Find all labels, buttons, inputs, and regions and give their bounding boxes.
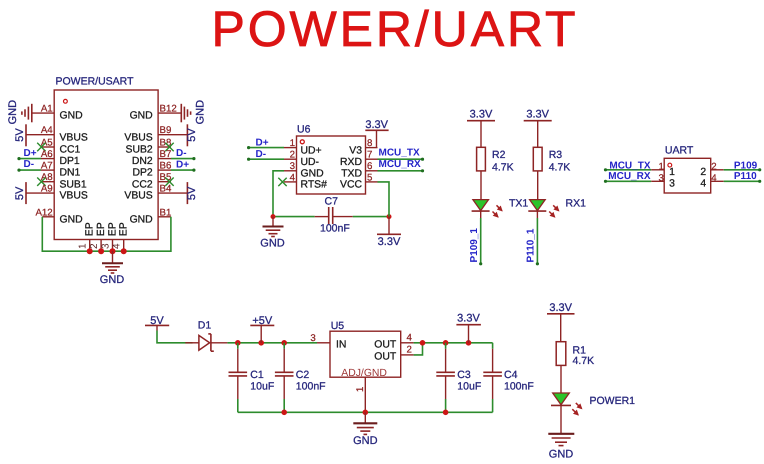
pin B9 VBUS xyxy=(124,125,187,143)
wire net D- right xyxy=(171,148,195,160)
svg-text:3.3V: 3.3V xyxy=(549,302,572,314)
svg-text:3: 3 xyxy=(669,179,675,190)
svg-text:C7: C7 xyxy=(325,195,339,207)
svg-text:EP: EP xyxy=(107,222,118,236)
capacitor C2 xyxy=(275,343,326,413)
svg-text:IN: IN xyxy=(336,339,346,350)
wire net MCU_TX at U6 xyxy=(378,148,425,161)
wire U6 VCC to junction xyxy=(378,182,390,217)
U6 pin 8 V3 xyxy=(349,138,377,156)
svg-text:V3: V3 xyxy=(349,145,362,156)
svg-text:5V: 5V xyxy=(14,128,26,142)
svg-text:D-: D- xyxy=(176,148,187,159)
svg-text:5: 5 xyxy=(367,172,372,183)
svg-text:100nF: 100nF xyxy=(504,380,534,392)
capacitor C4 xyxy=(483,343,533,413)
svg-text:1: 1 xyxy=(78,243,89,249)
svg-text:B1: B1 xyxy=(160,207,172,218)
pin EP3 xyxy=(100,222,118,251)
svg-text:3.3V: 3.3V xyxy=(457,312,480,324)
svg-text:P110_1: P110_1 xyxy=(526,228,537,262)
resistor R1 xyxy=(556,342,594,368)
svg-text:3: 3 xyxy=(310,333,315,344)
svg-text:MCU_RX: MCU_RX xyxy=(608,171,651,182)
svg-text:MCU_RX: MCU_RX xyxy=(379,159,422,170)
svg-text:EP: EP xyxy=(119,222,130,236)
U6 pin 3 GND xyxy=(284,161,324,179)
connector UART box xyxy=(664,145,711,193)
capacitor C3 xyxy=(436,343,481,413)
U6 pin 7 RXD xyxy=(340,150,377,168)
svg-text:VBUS: VBUS xyxy=(124,132,152,143)
svg-text:D1: D1 xyxy=(198,320,212,332)
svg-text:1: 1 xyxy=(659,161,664,172)
wire GND net under connector xyxy=(42,217,171,251)
ground symbol under U5 xyxy=(353,412,378,447)
pin B7 DN2 xyxy=(132,149,171,167)
svg-text:VBUS: VBUS xyxy=(124,191,152,202)
svg-text:5V: 5V xyxy=(14,186,26,200)
svg-text:DN2: DN2 xyxy=(132,156,153,167)
ground symbol under U6 xyxy=(260,217,285,250)
UART pin 1 xyxy=(651,161,675,178)
svg-text:TXD: TXD xyxy=(341,169,362,180)
svg-text:6: 6 xyxy=(367,161,372,172)
svg-text:D+: D+ xyxy=(176,160,189,171)
wire net D- left xyxy=(17,159,41,172)
svg-text:U6: U6 xyxy=(297,124,311,136)
svg-text:VBUS: VBUS xyxy=(60,132,88,143)
U6 pin 1 UD+ xyxy=(284,138,322,156)
resistor R2 xyxy=(477,147,514,173)
diode D1 xyxy=(185,320,227,352)
svg-text:POWER1: POWER1 xyxy=(590,395,636,407)
svg-text:100nF: 100nF xyxy=(296,380,326,392)
junction 3.3V stub xyxy=(466,340,472,346)
svg-text:VCC: VCC xyxy=(340,180,362,191)
pin A5 CC1 xyxy=(41,138,81,156)
no-connect X on B5 xyxy=(165,178,173,186)
junction C3 bottom xyxy=(443,410,449,416)
pin A12 GND xyxy=(35,207,82,225)
svg-text:3.3V: 3.3V xyxy=(365,119,388,131)
capacitor C1 xyxy=(229,343,275,413)
svg-text:1: 1 xyxy=(290,138,295,149)
svg-text:4.7K: 4.7K xyxy=(573,355,595,367)
svg-text:CC2: CC2 xyxy=(132,179,153,190)
wire R2 to TX1 xyxy=(480,171,482,200)
svg-text:10uF: 10uF xyxy=(457,380,481,392)
wire net MCU_RX at UART xyxy=(604,171,651,183)
svg-text:C2: C2 xyxy=(296,369,310,381)
svg-text:GND: GND xyxy=(194,100,206,125)
wire net P110_1 xyxy=(526,211,539,265)
svg-text:3.3V: 3.3V xyxy=(470,108,493,120)
IC U5 box xyxy=(330,320,401,377)
svg-text:4: 4 xyxy=(112,243,123,249)
pin EP2 xyxy=(89,222,107,251)
svg-text:RX1: RX1 xyxy=(566,198,587,210)
svg-text:R2: R2 xyxy=(492,149,506,161)
supply 3.3V above C3 xyxy=(456,312,481,343)
pin A6 DP1 xyxy=(41,149,80,167)
wire POWER1 to GND xyxy=(560,405,562,433)
no-connect X on A8 xyxy=(37,178,45,186)
svg-text:4: 4 xyxy=(290,172,296,183)
svg-text:4.7K: 4.7K xyxy=(549,161,571,173)
svg-text:A9: A9 xyxy=(41,184,53,195)
svg-text:GND: GND xyxy=(100,274,125,286)
junction C1 top xyxy=(235,340,241,346)
pin EP1 xyxy=(78,222,96,251)
no-connect X on B8 xyxy=(165,143,173,151)
pin A1 GND xyxy=(32,104,83,122)
pin B12 GND xyxy=(130,104,182,122)
svg-text:3: 3 xyxy=(659,173,664,184)
connector POWER/USART box xyxy=(54,76,158,240)
wire net MCU_TX at UART xyxy=(604,160,651,171)
wire 5V to D1 xyxy=(157,331,193,343)
svg-text:GND: GND xyxy=(353,435,378,447)
U5 pin 1 ADJ xyxy=(355,377,366,412)
svg-text:B4: B4 xyxy=(160,184,172,195)
junction EP2 xyxy=(98,248,104,254)
svg-text:P109_1: P109_1 xyxy=(469,228,480,263)
svg-text:R3: R3 xyxy=(549,149,563,161)
junction U5 pin1 xyxy=(363,410,369,416)
pin EP4 xyxy=(112,222,130,251)
svg-text:A6: A6 xyxy=(41,149,53,160)
wire C7 right to 3.3V xyxy=(333,216,353,218)
svg-text:MCU_TX: MCU_TX xyxy=(609,160,650,171)
supply 3.3V below C7 xyxy=(377,217,401,248)
svg-text:MCU_TX: MCU_TX xyxy=(379,148,420,159)
supply 5V at B9 xyxy=(186,124,198,146)
junction C3 top xyxy=(443,340,449,346)
no-connect X on U6 pin 4 xyxy=(278,178,286,186)
wire net D- to U6 xyxy=(247,149,284,161)
svg-text:5V: 5V xyxy=(186,128,198,142)
IC U6 box xyxy=(297,124,366,195)
svg-text:A4: A4 xyxy=(41,125,53,136)
svg-text:SUB2: SUB2 xyxy=(126,145,153,156)
supply 3.3V above R1 xyxy=(547,302,575,342)
svg-text:POWER/USART: POWER/USART xyxy=(56,76,135,88)
wire net P109_1 xyxy=(469,211,482,265)
svg-text:DN1: DN1 xyxy=(60,168,81,179)
svg-text:TX1: TX1 xyxy=(509,198,528,210)
junction at C7 left xyxy=(271,214,276,219)
svg-text:GND: GND xyxy=(260,238,285,250)
ground symbol left A1 xyxy=(7,100,32,125)
wire net MCU_RX at U6 xyxy=(378,159,425,172)
svg-text:B12: B12 xyxy=(160,104,177,115)
svg-text:D+: D+ xyxy=(24,148,37,159)
U6 pin 5 VCC xyxy=(340,172,377,190)
UART pin 2 xyxy=(700,161,723,178)
junction C2 top xyxy=(281,340,287,346)
svg-text:OUT: OUT xyxy=(374,351,397,362)
no-connect X on A5 xyxy=(37,143,45,151)
svg-text:ADJ/GND: ADJ/GND xyxy=(341,368,387,379)
svg-text:7: 7 xyxy=(367,150,372,161)
svg-text:GND: GND xyxy=(130,111,153,122)
wire OUT net top xyxy=(414,342,493,344)
pin A9 VBUS xyxy=(26,184,88,202)
svg-text:2: 2 xyxy=(290,150,295,161)
supply 3.3V above R3 xyxy=(524,108,552,147)
UART pin 4 xyxy=(700,173,723,190)
junction EP1 xyxy=(87,248,93,254)
wire net D+ to U6 xyxy=(247,138,284,150)
svg-text:DP1: DP1 xyxy=(60,156,80,167)
pin A8 SUB1 xyxy=(41,172,87,190)
svg-text:UD-: UD- xyxy=(301,157,319,168)
wire net P110 xyxy=(724,171,762,183)
svg-text:RXD: RXD xyxy=(340,157,362,168)
wire U6 GND net xyxy=(273,171,315,217)
UART pin 3 xyxy=(651,173,675,190)
svg-text:4: 4 xyxy=(711,173,717,184)
wire net D+ left xyxy=(17,148,41,160)
svg-text:8: 8 xyxy=(367,138,372,149)
U6 pin 6 TXD xyxy=(341,161,377,179)
junction at C7 right xyxy=(387,214,392,219)
svg-text:B6: B6 xyxy=(160,161,172,172)
svg-text:GND: GND xyxy=(301,169,324,180)
junction +5V stub xyxy=(258,340,264,346)
junction C2 bottom xyxy=(281,410,287,416)
svg-text:D+: D+ xyxy=(256,138,269,149)
svg-text:B9: B9 xyxy=(160,125,172,136)
LED RX1 xyxy=(528,198,586,217)
supply 3.3V above R2 xyxy=(467,108,495,147)
svg-text:D-: D- xyxy=(24,159,35,170)
supply +5V xyxy=(250,315,274,343)
junction EP4 xyxy=(121,248,127,254)
ground symbol under connector xyxy=(100,251,125,286)
svg-text:P110: P110 xyxy=(734,171,757,182)
pin B5 CC2 xyxy=(132,172,171,190)
wire R1 to POWER1 xyxy=(560,365,562,393)
svg-text:100nF: 100nF xyxy=(320,223,350,235)
svg-text:2: 2 xyxy=(89,243,100,249)
svg-text:1: 1 xyxy=(669,167,675,178)
svg-text:5V: 5V xyxy=(186,186,198,200)
svg-text:UART: UART xyxy=(665,145,694,157)
svg-text:4: 4 xyxy=(700,179,706,190)
svg-text:UD+: UD+ xyxy=(301,145,322,156)
ground symbol right B12 xyxy=(181,100,206,125)
svg-text:RTS#: RTS# xyxy=(301,180,328,191)
svg-text:4.7K: 4.7K xyxy=(492,161,514,173)
junction EP3 xyxy=(110,248,116,254)
svg-text:GND: GND xyxy=(60,111,83,122)
svg-text:POWER/UART: POWER/UART xyxy=(212,1,579,57)
svg-text:SUB1: SUB1 xyxy=(60,179,87,190)
svg-text:EP: EP xyxy=(96,222,107,236)
wire +5V rail xyxy=(227,342,317,344)
svg-text:P109: P109 xyxy=(734,160,758,171)
svg-text:C3: C3 xyxy=(457,369,471,381)
svg-text:1: 1 xyxy=(355,387,366,392)
svg-text:OUT: OUT xyxy=(374,339,397,350)
svg-text:CC1: CC1 xyxy=(60,145,81,156)
U6 pin 2 UD- xyxy=(284,150,319,168)
svg-text:C1: C1 xyxy=(250,369,264,381)
svg-text:4: 4 xyxy=(407,333,413,344)
wire pin2 riser xyxy=(414,343,423,355)
svg-text:A7: A7 xyxy=(41,161,53,172)
svg-text:B7: B7 xyxy=(160,149,172,160)
resistor R3 xyxy=(533,147,570,173)
svg-text:10uF: 10uF xyxy=(250,380,274,392)
svg-text:GND: GND xyxy=(549,449,574,461)
svg-text:3.3V: 3.3V xyxy=(526,108,549,120)
svg-text:A5: A5 xyxy=(41,138,53,149)
LED TX1 xyxy=(472,198,529,217)
pin B6 DP2 xyxy=(132,161,171,179)
svg-text:C4: C4 xyxy=(504,369,518,381)
svg-text:D-: D- xyxy=(256,149,267,160)
supply 5V at B4 xyxy=(186,182,198,204)
svg-text:DP2: DP2 xyxy=(132,168,152,179)
wire net P109 xyxy=(724,160,762,171)
U5 pin 2 OUT xyxy=(374,344,413,362)
svg-text:EP: EP xyxy=(85,222,96,236)
pin B8 SUB2 xyxy=(126,138,172,156)
svg-text:A1: A1 xyxy=(41,104,53,115)
svg-text:2: 2 xyxy=(407,344,412,355)
svg-text:3: 3 xyxy=(290,161,295,172)
svg-text:2: 2 xyxy=(711,161,716,172)
supply 3.3V above U6 pin 8 xyxy=(365,119,388,148)
ground symbol under POWER1 xyxy=(548,434,574,461)
pin A4 VBUS xyxy=(26,125,88,143)
svg-text:3.3V: 3.3V xyxy=(378,236,401,248)
capacitor C7 xyxy=(320,195,350,234)
LED POWER1 xyxy=(551,393,635,415)
U5 pin 4 OUT xyxy=(374,333,413,351)
wire R3 to RX1 xyxy=(537,171,539,200)
U5 pin 3 IN xyxy=(310,333,346,350)
pin A7 DN1 xyxy=(41,161,81,179)
svg-text:3: 3 xyxy=(100,243,111,249)
pin B4 VBUS xyxy=(124,184,187,202)
svg-text:GND: GND xyxy=(60,214,83,225)
wire net D+ right xyxy=(171,160,195,172)
pin B1 GND xyxy=(130,207,172,225)
supply 5V bottom left xyxy=(145,315,169,331)
supply 5V at A4 xyxy=(14,124,26,146)
wire GND rail bottom xyxy=(238,411,493,413)
U6 pin 4 RTS# xyxy=(284,172,327,190)
junction pin2 riser xyxy=(420,340,426,346)
svg-text:VBUS: VBUS xyxy=(60,191,88,202)
svg-text:2: 2 xyxy=(700,167,706,178)
svg-text:A12: A12 xyxy=(35,207,52,218)
svg-text:U5: U5 xyxy=(331,320,345,332)
supply 5V at A9 xyxy=(14,182,26,204)
svg-text:GND: GND xyxy=(7,100,19,125)
svg-text:GND: GND xyxy=(130,214,153,225)
svg-text:A8: A8 xyxy=(41,172,53,183)
